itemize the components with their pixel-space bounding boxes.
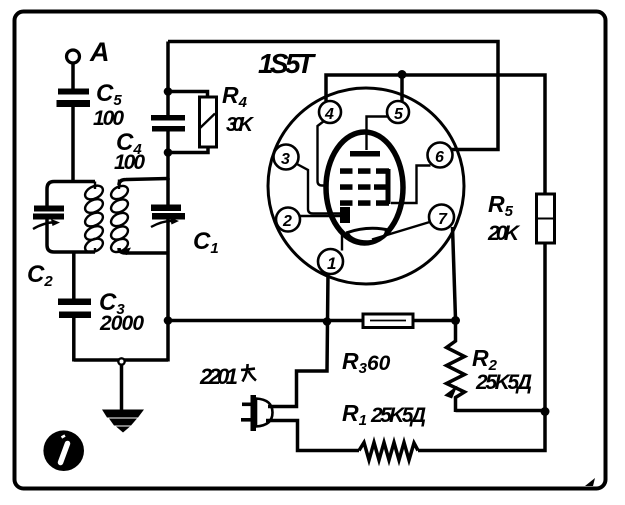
node/main vertical bus x=168 [166, 42, 170, 117]
wire C3 leg from tank bottom [72, 252, 76, 300]
wire L2 top to node [119, 179, 168, 186]
svg-text:1S5T: 1S5T [258, 48, 317, 79]
ground symbol [102, 410, 144, 433]
wire headphone bottom to R1 [266, 421, 359, 451]
wire R2 bottom to bus [456, 409, 546, 413]
tube inner structure outline [326, 132, 403, 243]
resistor R2 [444, 321, 532, 413]
capacitor C1 (variable) [151, 205, 219, 258]
svg-text:A: A [89, 37, 110, 67]
grid row 3 [340, 200, 389, 206]
svg-text:100: 100 [114, 151, 145, 174]
svg-text:5: 5 [394, 106, 404, 123]
svg-text:100: 100 [93, 107, 124, 130]
junction dot pin1/grid rail [323, 317, 332, 326]
wire C1 down to grid rail [166, 218, 170, 322]
junction dot above pin 5 [398, 70, 407, 79]
resistor R4 [168, 82, 255, 153]
wire tank bottom left [47, 220, 95, 253]
svg-text:6: 6 [435, 149, 444, 166]
wire R5 down to R1 corner [418, 243, 545, 451]
ground rail [74, 358, 168, 362]
wire bus C4 to R4 bottom junction [166, 131, 170, 180]
cathode blob [340, 207, 350, 223]
svg-text:30K: 30K [226, 114, 255, 136]
junction dot R4 bottom [164, 148, 173, 157]
pin 4 [319, 101, 341, 123]
coil L1 (left winding) [83, 182, 105, 256]
svg-text:2000: 2000 [99, 312, 144, 335]
wire bus to C1 [166, 178, 170, 206]
svg-text:3: 3 [281, 151, 290, 168]
tube envelope U1 [268, 88, 464, 284]
coil L2 (right winding) [109, 180, 130, 255]
arrowhead on L2 bottom wire [114, 248, 131, 256]
filament arc [348, 228, 387, 241]
wire pin7 to filament [372, 221, 433, 240]
resistor R1 [342, 400, 426, 460]
wire junction to pin 5 [400, 75, 404, 101]
grid row 2 [340, 184, 386, 190]
wire pin1 to filament [341, 231, 343, 251]
resistor R5 [487, 191, 555, 245]
wire pin3 to cathode [295, 163, 340, 214]
wire pin4 to grid [318, 121, 329, 186]
svg-text:7: 7 [438, 211, 448, 228]
svg-text:25K5Д: 25K5Д [370, 404, 426, 427]
svg-text:25K5Д: 25K5Д [475, 371, 532, 394]
figure number 1 [43, 430, 84, 471]
svg-text:60: 60 [367, 352, 391, 375]
capacitor C3 [58, 289, 144, 335]
wire tank top left [47, 182, 95, 206]
wire ground drop [120, 365, 124, 417]
junction circle ground tap [118, 358, 124, 364]
grid tie bar rows 1-3 [386, 169, 391, 204]
wire bus down to ground rail [166, 320, 170, 362]
svg-text:20K: 20K [487, 222, 521, 245]
top rail (bus to pin 6) [168, 42, 498, 150]
resistor R3 [342, 314, 413, 377]
wire L2 bottom to C1 leg [119, 248, 168, 253]
wire antenna to C5 [71, 63, 75, 89]
capacitor C5 [57, 80, 125, 130]
wire R3 to junction [413, 319, 456, 323]
junction dot C4/R4 top [164, 87, 173, 96]
pin 7 [429, 205, 454, 230]
pin 1 [318, 249, 343, 274]
junction dot grid rail [164, 316, 173, 325]
pin 2 [276, 208, 300, 232]
grid row 1 [340, 168, 389, 174]
pin 6 [428, 143, 453, 168]
capacitor C4 [114, 115, 185, 174]
junction dot R2 return [541, 407, 550, 416]
pin 3 [274, 145, 299, 170]
grid-leak rail to R3 [168, 319, 363, 323]
wire pin7 down to junction [453, 227, 456, 319]
svg-text:1: 1 [327, 254, 336, 273]
screen rail y75 pin4 [326, 75, 545, 195]
capacitor C2 (variable) [27, 206, 64, 291]
svg-text:2: 2 [282, 213, 292, 230]
wire pin6 to grid tie [391, 166, 431, 204]
plate lead to pin 5 [367, 117, 389, 151]
svg-text:4: 4 [324, 106, 334, 123]
wire C5 to tank top [71, 107, 75, 182]
junction dot R2 top [451, 316, 460, 325]
wire pin2 to cathode [298, 215, 340, 217]
wire C3 to ground rail [72, 317, 76, 362]
antenna terminal A [67, 37, 110, 67]
wire headphone top to pin 1 [268, 273, 328, 407]
svg-text:2201: 2201 [199, 364, 238, 389]
pin 5 [387, 101, 409, 123]
headphone plug [241, 395, 273, 431]
plate bar [350, 151, 380, 157]
